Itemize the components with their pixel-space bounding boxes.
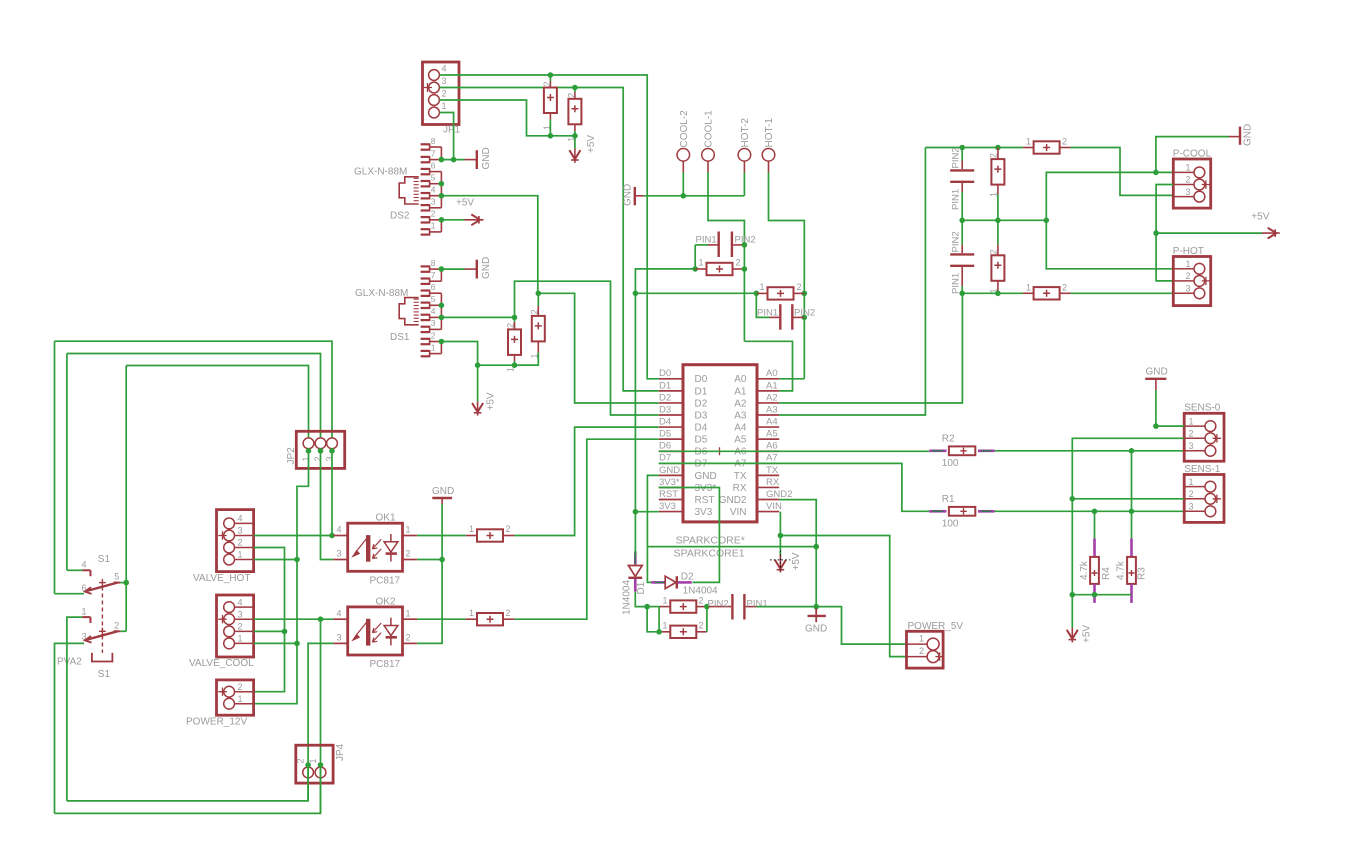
wire OK2.3 to JP4.2 <box>308 643 333 765</box>
wire GND rail bottom <box>647 546 816 548</box>
svg-text:RX: RX <box>766 477 780 488</box>
wire net to IC D3 <box>515 281 659 415</box>
svg-text:A7: A7 <box>766 453 778 464</box>
svg-text:OK1: OK1 <box>376 513 396 524</box>
diode D1 1N4004 <box>634 551 637 564</box>
svg-text:GND2: GND2 <box>719 495 747 506</box>
wire bottom loop to JP4.1 <box>55 765 321 813</box>
svg-text:+5V: +5V <box>586 135 597 153</box>
wire JP2.2 to OK1.3 <box>321 451 334 560</box>
svg-text:4: 4 <box>431 185 436 195</box>
svg-text:GND: GND <box>659 465 680 476</box>
junction <box>813 604 819 610</box>
wire C16.2 to P-COOL.3 <box>1071 148 1174 196</box>
wire +5V bottom rail <box>1072 594 1131 596</box>
svg-text:2: 2 <box>406 549 411 559</box>
svg-text:2: 2 <box>238 538 243 548</box>
svg-text:8: 8 <box>431 258 436 268</box>
junction <box>439 157 445 163</box>
svg-text:2: 2 <box>699 621 704 631</box>
svg-text:3: 3 <box>337 633 342 643</box>
connector POWER_12V <box>217 680 254 715</box>
junction <box>959 291 965 297</box>
resistor R1 100 <box>929 510 946 513</box>
svg-text:A4: A4 <box>766 416 778 427</box>
svg-text:+5V: +5V <box>456 198 474 209</box>
wire HOT-2 net vertical <box>743 245 745 341</box>
wire OK2.4 drop to JP4.1 <box>320 619 322 765</box>
junction <box>1044 218 1050 224</box>
svg-text:D0: D0 <box>659 368 671 379</box>
svg-text:3: 3 <box>431 318 436 328</box>
pin DS2.1 <box>421 228 430 230</box>
junction <box>305 762 311 768</box>
diode LED OK2 <box>355 620 368 637</box>
svg-text:1: 1 <box>238 634 243 644</box>
svg-text:1: 1 <box>238 694 243 704</box>
svg-text:6: 6 <box>431 282 436 292</box>
junction <box>318 616 324 622</box>
svg-text:D2: D2 <box>695 398 708 409</box>
pin U1 A0 <box>757 378 779 380</box>
svg-text:2: 2 <box>1189 429 1194 439</box>
junction <box>1153 423 1159 429</box>
svg-text:5: 5 <box>431 173 436 183</box>
junction <box>439 193 445 199</box>
connector JP2 <box>296 431 344 468</box>
svg-text:A2: A2 <box>766 392 778 403</box>
junction <box>572 133 578 139</box>
wire C11 to GND2 net <box>757 606 817 608</box>
svg-text:2: 2 <box>114 620 119 630</box>
svg-text:2: 2 <box>238 622 243 632</box>
wire JP1.2 <box>440 100 575 136</box>
wire GND branch <box>1156 137 1229 173</box>
svg-text:GND: GND <box>432 486 454 497</box>
svg-text:R4: R4 <box>1101 567 1112 580</box>
ground GND (OK1) <box>432 497 452 499</box>
diode D2 1N4004 <box>651 581 665 584</box>
junction <box>633 509 639 515</box>
junction <box>1070 592 1076 598</box>
junction <box>439 181 445 187</box>
wire C4.1 <box>515 353 539 365</box>
pin U1 D4 <box>659 426 683 428</box>
svg-text:R2: R2 <box>942 434 955 445</box>
svg-text:A3: A3 <box>734 410 747 421</box>
svg-text:1: 1 <box>238 550 243 560</box>
wire S1.4 riser <box>66 354 68 571</box>
svg-text:2: 2 <box>989 153 999 158</box>
svg-text:A5: A5 <box>766 429 778 440</box>
pin U1 3V3* <box>659 486 683 488</box>
junction <box>439 266 445 272</box>
svg-text:3: 3 <box>82 632 87 642</box>
pin U1 GND <box>659 474 683 476</box>
svg-text:DS2: DS2 <box>390 211 410 222</box>
svg-text:JP4: JP4 <box>335 743 346 761</box>
wire R1 to SENS-1.3 <box>995 510 1185 512</box>
wire JP1.3 to IC D1 <box>440 88 659 391</box>
wire 3V3 net vertical <box>634 293 636 511</box>
wire C2.1 <box>574 131 576 136</box>
wire P-COOL.2 to +5V net <box>1156 185 1173 281</box>
wire 3V3* to D2 <box>659 488 720 583</box>
svg-text:D2: D2 <box>681 572 694 583</box>
wire VALVE_HOT.1 <box>254 559 297 561</box>
junction <box>1129 448 1135 454</box>
wire DS2.7 to GND <box>441 159 464 161</box>
junction <box>813 544 819 550</box>
wire VALVE_COOL.1 <box>254 642 297 644</box>
wire C5.1 drop <box>694 245 696 269</box>
svg-text:4: 4 <box>442 64 447 74</box>
wire bottom loop to JP4.2 <box>67 765 308 801</box>
wire S1.6 <box>55 593 85 595</box>
pin U1 D5 <box>659 438 683 440</box>
wire C13.1 <box>997 194 999 220</box>
junction <box>1092 592 1098 598</box>
capacitor C15 <box>991 255 1004 280</box>
svg-text:D0: D0 <box>695 374 708 385</box>
connector VALVE_COOL <box>217 595 254 657</box>
svg-text:8: 8 <box>431 136 436 146</box>
svg-text:P-HOT: P-HOT <box>1173 246 1204 257</box>
svg-text:GND: GND <box>695 471 717 482</box>
svg-text:4: 4 <box>431 306 436 316</box>
wire GND drop <box>1155 390 1157 426</box>
svg-text:GND: GND <box>481 257 492 279</box>
wire VIN drop <box>779 512 781 555</box>
wire C8.1 elbow <box>756 293 769 317</box>
wire JP4 pass 1 <box>320 765 322 813</box>
svg-text:1: 1 <box>1189 477 1194 487</box>
pin DS2.6 <box>421 168 430 170</box>
svg-text:3V3*: 3V3* <box>659 477 680 488</box>
capacitor C17 <box>1034 287 1060 299</box>
svg-text:2: 2 <box>989 249 999 254</box>
svg-text:VIN: VIN <box>766 501 782 512</box>
pad HOT-1 <box>762 149 775 162</box>
junction <box>681 193 687 199</box>
junction <box>995 218 1001 224</box>
pin U1 TX <box>757 474 779 476</box>
wire DS1.4 to IC D3 net <box>441 316 514 318</box>
wire arch JP2.2 <box>67 354 321 438</box>
svg-text:5: 5 <box>114 572 119 582</box>
junction <box>512 362 518 368</box>
op-amp U1 SPARKCORE1 body <box>683 365 757 522</box>
arrows OK2 <box>372 623 381 633</box>
pin DS2.8 <box>421 143 430 145</box>
junction <box>439 315 445 321</box>
svg-text:D4: D4 <box>659 416 671 427</box>
wire DS1.8 to GND <box>441 268 464 270</box>
svg-text:D5: D5 <box>659 429 671 440</box>
pin U1 A6 <box>757 450 779 452</box>
svg-text:GND: GND <box>1146 367 1168 378</box>
svg-text:1: 1 <box>1189 416 1194 426</box>
svg-text:PVA2: PVA2 <box>57 657 82 668</box>
svg-text:RST: RST <box>659 489 678 500</box>
svg-text:3: 3 <box>1189 502 1194 512</box>
svg-text:1: 1 <box>431 221 436 231</box>
svg-text:3: 3 <box>1186 284 1191 294</box>
junction <box>1070 496 1076 502</box>
svg-text:A3: A3 <box>766 404 778 415</box>
wire C9.1 branch <box>647 606 659 608</box>
pin DS2.5 <box>421 180 430 182</box>
pin DS2.3 <box>421 204 430 206</box>
connector P-COOL <box>1173 159 1210 208</box>
svg-text:2: 2 <box>506 323 516 328</box>
wire overlap A6 stub <box>757 450 779 452</box>
wire VALVE_HOT.2 chain <box>254 548 285 692</box>
junction <box>1092 509 1098 515</box>
wire HOT-1 to net <box>769 172 805 378</box>
transistor OK2 PC817 body <box>348 607 403 655</box>
svg-text:2: 2 <box>238 682 243 692</box>
svg-text:1: 1 <box>469 608 474 618</box>
svg-text:PIN1: PIN1 <box>696 235 717 246</box>
wire 3V3 net corner <box>635 269 695 293</box>
pin U1 VIN <box>757 511 779 513</box>
svg-text:2: 2 <box>431 330 436 340</box>
pin U1 A5 <box>757 438 779 440</box>
wire C18.2 to D4 <box>514 427 658 535</box>
supply +5V arrow (DS1) <box>477 365 479 401</box>
wire OK2.1 to C19 <box>417 618 466 620</box>
wire 3V3 net rail <box>635 292 756 294</box>
capacitor C1 <box>544 88 557 114</box>
junction <box>294 557 300 563</box>
switch S1 bracket <box>92 653 113 662</box>
capacitor C19 <box>477 613 503 625</box>
connector POWER_5V <box>907 631 944 668</box>
svg-text:+5V: +5V <box>1251 212 1269 223</box>
svg-text:A2: A2 <box>734 398 747 409</box>
connector P-HOT <box>1173 257 1210 306</box>
svg-text:1: 1 <box>406 525 411 535</box>
wire C14.2 <box>961 220 963 245</box>
svg-text:PIN2: PIN2 <box>950 231 961 252</box>
junction <box>329 533 335 539</box>
capacitor C13 <box>991 159 1004 185</box>
wire VALVE_COOL.3 to OK2.4 <box>254 618 334 620</box>
wire C12.1 <box>961 192 963 220</box>
wire C12.2 <box>961 148 963 161</box>
svg-text:A1: A1 <box>766 380 778 391</box>
wire overlap D6 stub <box>659 450 683 452</box>
svg-text:GND2: GND2 <box>766 489 792 500</box>
svg-text:S1: S1 <box>98 554 111 565</box>
wire GND rail <box>644 195 745 197</box>
svg-text:DS1: DS1 <box>390 332 410 343</box>
svg-text:1: 1 <box>308 758 318 763</box>
svg-text:2: 2 <box>506 608 511 618</box>
supply +5V arrow <box>574 149 576 163</box>
wire GND pin <box>647 475 658 546</box>
wire R3 riser <box>1131 451 1133 539</box>
svg-text:2: 2 <box>1062 137 1067 147</box>
ground GND (SENS-0) <box>1145 378 1166 380</box>
svg-text:S1: S1 <box>98 669 111 680</box>
resistor R2 100 <box>929 449 946 452</box>
junction <box>1153 230 1159 236</box>
junction <box>754 291 760 297</box>
wire A3 <box>779 148 925 416</box>
connector VALVE_HOT <box>217 510 254 572</box>
svg-text:PIN1: PIN1 <box>747 598 768 609</box>
wire SENS-0.1 <box>1156 425 1184 427</box>
capacitor C6 <box>707 263 733 275</box>
junction <box>439 557 445 563</box>
svg-text:2: 2 <box>1186 175 1191 185</box>
junction <box>536 291 542 297</box>
svg-text:HOT-2: HOT-2 <box>740 118 751 148</box>
svg-text:POWER_5V: POWER_5V <box>908 621 964 632</box>
svg-text:D6: D6 <box>659 441 671 452</box>
wire A1 riser <box>744 341 792 391</box>
wire rail to P-HOT.1 <box>1046 220 1173 268</box>
wire top cap rail <box>925 147 1023 149</box>
capacitor C5 PIN1/PIN2 <box>718 232 720 258</box>
pin DS1.2 <box>421 338 430 340</box>
wire C3.1 <box>514 361 516 365</box>
svg-text:P-COOL: P-COOL <box>1173 149 1212 160</box>
connector JP1 <box>423 62 460 125</box>
pin U1 RX <box>757 486 779 488</box>
pin DS1.1 <box>421 350 430 352</box>
svg-text:4: 4 <box>82 560 87 570</box>
wire branch down <box>647 607 659 632</box>
svg-text:5: 5 <box>431 294 436 304</box>
svg-text:JP1: JP1 <box>443 125 461 136</box>
pin U1 D7 <box>659 462 683 464</box>
wire A0 <box>779 378 804 380</box>
svg-text:SPARKCORE1: SPARKCORE1 <box>674 548 745 560</box>
wire C17.2 to P-HOT.3 <box>1071 292 1174 294</box>
tie DS2.8-7 <box>440 147 442 160</box>
pin DS2.4 <box>421 192 430 194</box>
wire C19.2 to D5 <box>514 439 658 619</box>
capacitor C10 <box>670 626 696 638</box>
wire JP2.1 chain <box>254 451 309 704</box>
junction <box>959 218 965 224</box>
pin U1 D2 <box>659 402 683 404</box>
svg-text:2: 2 <box>1062 282 1067 292</box>
connector SENS-0 <box>1184 413 1224 461</box>
supply +5V arrow (DS2) <box>465 219 484 221</box>
transistor OK1 PC817 body <box>348 523 403 571</box>
svg-text:3: 3 <box>337 549 342 559</box>
wire C1.2 <box>549 75 551 81</box>
wire S1.2 <box>120 630 126 632</box>
pin U1 D6 <box>659 450 683 452</box>
wire GND drop OK <box>441 504 443 644</box>
wire S1.5 riser <box>125 366 127 583</box>
pin DS1.3 <box>421 326 430 328</box>
wire 3V3 pin <box>635 511 658 513</box>
wire C2.2 <box>574 88 576 93</box>
pin DS2.7 <box>421 156 430 158</box>
pin U1 D1 <box>659 390 683 392</box>
svg-text:2: 2 <box>506 524 511 534</box>
svg-text:A4: A4 <box>734 422 747 433</box>
junction <box>318 762 324 768</box>
supply +5V arrow (VIN) <box>779 555 781 573</box>
wire D1 to PIN2 net <box>635 592 647 607</box>
wire DS1.2 to +5V rail <box>441 342 477 366</box>
switch S1 link dashed <box>101 587 103 653</box>
wire GND to D2 <box>647 547 652 583</box>
tie DS1.6-3 <box>440 293 442 329</box>
svg-text:PC817: PC817 <box>370 659 401 670</box>
capacitor C4 <box>532 316 545 342</box>
svg-text:D1: D1 <box>659 380 671 391</box>
capacitor C9 <box>670 600 696 612</box>
wire overlap A7 stub <box>757 462 779 464</box>
wire overlap D7 stub <box>659 462 683 464</box>
origin crosshair dotted <box>770 551 790 571</box>
svg-text:POWER_12V: POWER_12V <box>186 717 247 728</box>
pad COOL-2 <box>677 149 690 162</box>
wire C5.1 <box>695 244 708 246</box>
wire DS2.2 to +5V <box>441 219 464 221</box>
wire to POWER_5V.1 <box>816 607 906 645</box>
svg-text:3: 3 <box>442 76 447 86</box>
svg-text:4: 4 <box>337 608 342 618</box>
junction <box>548 133 554 139</box>
wire VIN to POWER_5V.2 <box>780 536 906 657</box>
svg-text:D1: D1 <box>636 581 647 594</box>
svg-text:2: 2 <box>542 81 552 86</box>
tie DS1.8-7 <box>440 269 442 281</box>
svg-text:SENS-1: SENS-1 <box>1184 464 1221 475</box>
svg-text:1: 1 <box>301 456 311 461</box>
wire R2 to SENS-0.3 <box>995 450 1185 452</box>
svg-text:PIN2: PIN2 <box>950 147 961 168</box>
svg-text:1: 1 <box>1186 259 1191 269</box>
svg-text:100: 100 <box>942 519 959 530</box>
svg-text:100: 100 <box>942 458 959 469</box>
svg-text:RX: RX <box>733 483 747 494</box>
wire OK1.1 to C18 <box>417 535 466 537</box>
photodiode OK1 <box>390 534 392 542</box>
svg-text:HOT-1: HOT-1 <box>764 118 775 148</box>
svg-text:D7: D7 <box>659 453 671 464</box>
svg-text:GLX-N-88M: GLX-N-88M <box>354 167 407 178</box>
junction <box>778 533 784 539</box>
svg-text:3: 3 <box>238 609 243 619</box>
wire +5V branch <box>1156 232 1262 234</box>
wire mid rail <box>962 219 1046 221</box>
svg-text:2: 2 <box>296 758 306 763</box>
junction <box>572 85 578 91</box>
wire overlap 3V3* stub <box>659 487 683 489</box>
junction <box>704 604 710 610</box>
svg-text:D4: D4 <box>695 422 708 433</box>
svg-text:PIN2: PIN2 <box>794 307 815 318</box>
svg-text:1: 1 <box>1186 163 1191 173</box>
svg-text:3: 3 <box>1189 441 1194 451</box>
wire JP2.3 drop <box>331 451 333 536</box>
svg-text:2: 2 <box>1189 489 1194 499</box>
junction <box>329 448 335 454</box>
ground GND (P-COOL) <box>1239 127 1241 145</box>
wire C14.1 <box>961 286 963 293</box>
svg-text:A6: A6 <box>766 441 778 452</box>
